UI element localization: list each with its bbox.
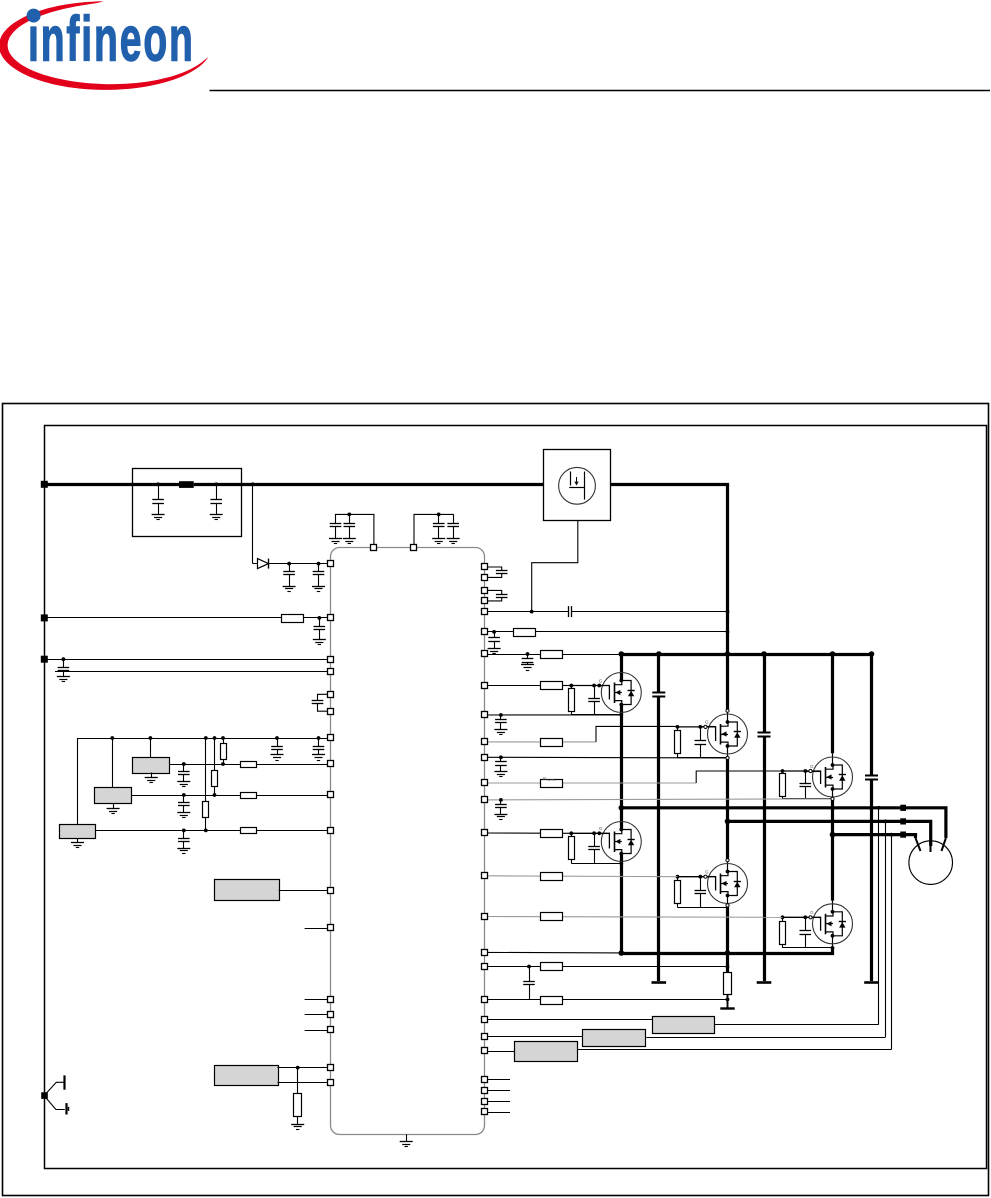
svg-text:G: G xyxy=(599,678,603,683)
svg-text:G: G xyxy=(599,826,603,831)
svg-text:GATE: GATE xyxy=(547,778,555,782)
svg-text:ınfineon: ınfineon xyxy=(28,5,193,75)
svg-text:G: G xyxy=(705,870,709,875)
svg-text:G: G xyxy=(810,764,814,769)
svg-text:G: G xyxy=(705,720,709,725)
svg-text:G: G xyxy=(810,910,814,915)
